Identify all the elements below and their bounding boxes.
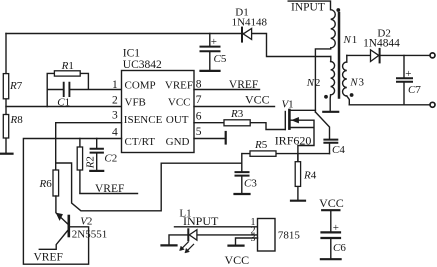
output terminal top bbox=[430, 53, 435, 58]
svg-text:1N4148: 1N4148 bbox=[232, 17, 268, 29]
emitter arrow V2 bbox=[56, 213, 62, 220]
wire sense net bbox=[56, 163, 242, 211]
plus C7 bbox=[405, 68, 411, 80]
arrow V1 bbox=[292, 118, 299, 123]
svg-text:7: 7 bbox=[196, 94, 202, 106]
svg-text:5: 5 bbox=[196, 126, 202, 138]
svg-text:C5: C5 bbox=[214, 53, 227, 65]
pin label GND bbox=[166, 136, 190, 148]
net label VREF pin8 bbox=[229, 79, 258, 91]
wire V2 collector to VREF bbox=[39, 230, 68, 250]
svg-text:VCC: VCC bbox=[319, 196, 344, 210]
pin number 7815-1 bbox=[251, 217, 256, 228]
svg-text:N: N bbox=[343, 34, 352, 46]
mosfet V1 channel bar bbox=[288, 110, 291, 129]
label C5 bbox=[214, 53, 227, 65]
capacitor C3 bbox=[236, 154, 249, 194]
svg-text:2: 2 bbox=[315, 77, 321, 89]
ground C3 bbox=[235, 193, 250, 195]
svg-text:1: 1 bbox=[352, 34, 358, 46]
label C6 bbox=[333, 242, 346, 254]
pin number 6 bbox=[196, 111, 202, 123]
svg-text:C3: C3 bbox=[244, 177, 257, 189]
regulator 7815 bbox=[258, 219, 276, 252]
svg-text:3: 3 bbox=[112, 110, 118, 122]
terminal VCC C6 bbox=[322, 209, 339, 211]
resistor R8 bbox=[3, 115, 8, 139]
wire VFB pin2 bbox=[6, 106, 122, 108]
wire secondary top bbox=[347, 54, 430, 56]
op-amp U1 IC box bbox=[122, 71, 195, 153]
label UC3842 bbox=[123, 59, 162, 71]
label N2 bbox=[306, 77, 321, 89]
net label VREF mid bbox=[80, 193, 138, 195]
ground R8 bbox=[0, 153, 13, 155]
label N1 bbox=[343, 34, 358, 46]
transistor V2 base bar bbox=[68, 216, 71, 236]
mosfet V1 gate wire bbox=[284, 112, 286, 130]
capacitor C1 bbox=[64, 83, 70, 96]
transformer secondary N3 bbox=[343, 55, 350, 104]
label 7815 bbox=[278, 230, 301, 242]
terminal bar pin5 bbox=[225, 132, 227, 144]
svg-text:ISENCE: ISENCE bbox=[124, 114, 163, 126]
svg-text:VREF: VREF bbox=[165, 80, 193, 92]
label D2 bbox=[377, 28, 390, 40]
svg-text:R3: R3 bbox=[230, 108, 244, 120]
svg-text:R7: R7 bbox=[9, 80, 23, 92]
label 2N5551 bbox=[72, 229, 107, 241]
label C2 bbox=[104, 153, 117, 165]
wire R5 row bbox=[242, 153, 329, 155]
net label VCC pin7 bbox=[245, 93, 270, 107]
svg-text:COMP: COMP bbox=[125, 80, 156, 92]
svg-text:C4: C4 bbox=[332, 144, 345, 156]
label IRF620 bbox=[275, 134, 312, 148]
LED L1 wires bbox=[169, 227, 258, 245]
plus C6 bbox=[333, 222, 339, 234]
label 1N4844 bbox=[363, 38, 400, 50]
label R8 bbox=[10, 114, 24, 126]
polarity dot N2 bbox=[324, 95, 328, 99]
ground C2 bbox=[90, 170, 103, 172]
svg-text:VREF: VREF bbox=[34, 252, 63, 264]
pin number 2 bbox=[112, 94, 118, 106]
svg-text:CT/RT: CT/RT bbox=[125, 136, 156, 148]
svg-text:VFB: VFB bbox=[125, 96, 146, 108]
label R6 bbox=[39, 178, 53, 190]
label IC1 bbox=[123, 48, 141, 60]
ground N2 bbox=[323, 111, 338, 113]
svg-text:R6: R6 bbox=[39, 178, 53, 190]
wire 7815 pin3 bbox=[236, 238, 258, 245]
svg-text:4: 4 bbox=[112, 127, 118, 139]
svg-text:UC3842: UC3842 bbox=[123, 59, 162, 71]
svg-text:R8: R8 bbox=[10, 114, 24, 126]
svg-text:+: + bbox=[405, 68, 411, 80]
svg-text:R1: R1 bbox=[61, 60, 74, 72]
pin label VCC7 bbox=[168, 96, 191, 108]
wire V2 base loop to CT/RT bbox=[23, 139, 121, 265]
wire secondary bottom bbox=[349, 104, 430, 106]
label C7 bbox=[408, 84, 421, 96]
svg-text:VREF: VREF bbox=[229, 79, 258, 91]
diode D2 bbox=[371, 49, 380, 63]
svg-text:+: + bbox=[211, 36, 217, 48]
svg-text:8: 8 bbox=[196, 78, 202, 90]
wire ISENCE pin3 bbox=[56, 123, 122, 170]
resistor R6 bbox=[53, 170, 59, 196]
label R4 bbox=[303, 170, 317, 182]
resistor R2 bbox=[77, 147, 82, 170]
resistor R3 bbox=[224, 120, 250, 126]
label R7 bbox=[9, 80, 23, 92]
svg-text:VCC: VCC bbox=[225, 253, 250, 267]
net label VREF bottom left bbox=[34, 252, 63, 264]
label R3 bbox=[230, 108, 244, 120]
svg-text:GND: GND bbox=[166, 136, 190, 148]
svg-text:IRF620: IRF620 bbox=[275, 134, 312, 148]
svg-text:VCC: VCC bbox=[245, 93, 270, 107]
svg-text:1: 1 bbox=[112, 79, 118, 91]
transformer core bbox=[338, 13, 341, 98]
wire R6 emitter bbox=[56, 196, 68, 225]
svg-text:7815: 7815 bbox=[278, 230, 301, 242]
label D1 bbox=[235, 7, 248, 19]
svg-text:3: 3 bbox=[359, 77, 365, 89]
polarity dot N1 bbox=[336, 8, 340, 12]
wire top rail bbox=[6, 34, 331, 57]
transformer aux N2 bbox=[330, 57, 334, 112]
pin number 1 bbox=[112, 79, 118, 91]
svg-text:N: N bbox=[306, 77, 315, 89]
LED L1 bbox=[188, 229, 197, 240]
wire GND pin5 stub bbox=[194, 138, 225, 140]
capacitor C5 bbox=[201, 34, 220, 71]
pin number 3 bbox=[112, 110, 118, 122]
svg-text:N: N bbox=[349, 77, 358, 89]
ground L1 bbox=[162, 244, 177, 246]
svg-text:2N5551: 2N5551 bbox=[72, 229, 107, 241]
svg-text:VCC: VCC bbox=[168, 96, 191, 108]
wire VREF pin8 bbox=[194, 89, 260, 91]
svg-text:INPUT: INPUT bbox=[183, 214, 219, 228]
label V1 bbox=[282, 98, 294, 110]
capacitor C4 bbox=[324, 140, 337, 154]
resistor R4 bbox=[295, 154, 300, 200]
wire drain snubber diagonal bbox=[315, 112, 329, 139]
mosfet V1 source leads bbox=[291, 120, 315, 162]
label C4 bbox=[332, 144, 345, 156]
resistor R7 bbox=[3, 74, 8, 99]
ground C5 bbox=[201, 70, 220, 72]
svg-text:C2: C2 bbox=[104, 153, 117, 165]
label R1 bbox=[61, 60, 74, 72]
svg-text:1N4844: 1N4844 bbox=[363, 38, 400, 50]
wire R1C1 block bbox=[47, 73, 121, 106]
capacitor C7 bbox=[397, 55, 412, 104]
pin number 4 bbox=[112, 127, 118, 139]
svg-text:R4: R4 bbox=[303, 170, 317, 182]
pin number 5 bbox=[196, 126, 202, 138]
label 1N4148 bbox=[232, 17, 268, 29]
pin label ISENCE bbox=[124, 114, 163, 126]
ground C6 bbox=[321, 258, 341, 260]
pin label OUT bbox=[166, 114, 189, 126]
net label VCC right bbox=[319, 196, 344, 210]
svg-text:2: 2 bbox=[87, 215, 93, 227]
net label INPUT top bbox=[291, 2, 325, 14]
pin number 7815-3 bbox=[251, 233, 256, 244]
svg-text:IC1: IC1 bbox=[123, 48, 141, 60]
pin number 8 bbox=[196, 78, 202, 90]
pin label VREF8 bbox=[165, 80, 193, 92]
svg-text:OUT: OUT bbox=[166, 114, 189, 126]
pin label CT/RT bbox=[125, 136, 156, 148]
svg-text:INPUT: INPUT bbox=[291, 2, 325, 14]
mosfet V1 drain bbox=[291, 109, 316, 111]
resistor R1 bbox=[54, 71, 80, 76]
wire left rail bbox=[5, 34, 7, 153]
svg-text:VREF: VREF bbox=[95, 183, 124, 195]
wire VCC pin7 bbox=[194, 106, 275, 108]
plus C5 bbox=[211, 36, 217, 48]
svg-text:2: 2 bbox=[112, 94, 118, 106]
wire R2 stem bbox=[79, 139, 81, 193]
resistor R5 bbox=[250, 151, 276, 156]
net label INPUT bottom bbox=[183, 214, 219, 228]
svg-text:6: 6 bbox=[196, 111, 202, 123]
label V2 bbox=[80, 215, 92, 227]
pin number 7815-2 bbox=[251, 225, 256, 236]
svg-text:R2: R2 bbox=[84, 156, 96, 169]
label R5 bbox=[254, 139, 268, 151]
ground R4 bbox=[291, 200, 305, 202]
label C1 bbox=[57, 96, 70, 108]
transformer primary N1 bbox=[288, 1, 335, 112]
svg-text:1: 1 bbox=[288, 98, 294, 110]
capacitor C6 bbox=[322, 210, 341, 258]
svg-text:R5: R5 bbox=[254, 139, 268, 151]
label N3 bbox=[349, 77, 364, 89]
label R2 rotated bbox=[84, 156, 96, 169]
label L1 bbox=[179, 207, 191, 219]
net label VCC bottom bbox=[225, 253, 250, 267]
svg-text:+: + bbox=[333, 222, 339, 234]
diode D1 bbox=[242, 28, 252, 42]
output terminal bottom bbox=[430, 102, 435, 107]
capacitor C2 bbox=[91, 139, 103, 171]
pin label COMP bbox=[125, 80, 156, 92]
svg-text:C6: C6 bbox=[333, 242, 346, 254]
LED arrows bbox=[180, 242, 194, 253]
svg-text:C1: C1 bbox=[57, 96, 70, 108]
ground 7815 bbox=[229, 245, 244, 247]
pin label VFB bbox=[125, 96, 146, 108]
label C3 bbox=[244, 177, 257, 189]
svg-text:C7: C7 bbox=[408, 84, 421, 96]
pin number 7 bbox=[196, 94, 202, 106]
polarity dot N3 bbox=[350, 93, 354, 97]
wire OUT pin6 bbox=[194, 123, 285, 130]
